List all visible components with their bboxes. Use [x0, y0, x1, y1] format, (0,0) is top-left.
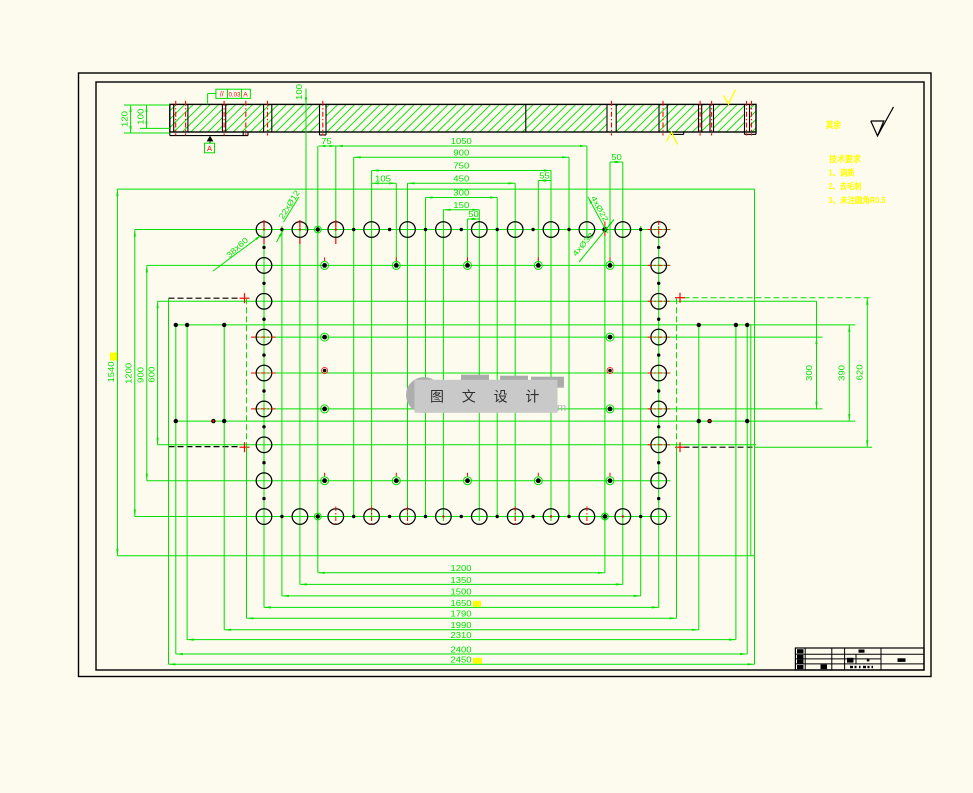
left pocket corner dots: [174, 323, 227, 424]
title block: [795, 648, 924, 670]
svg-text:1200: 1200: [125, 362, 134, 384]
section bar bottom tab middle: [671, 132, 684, 134]
top dimension extension lines: [396, 162, 610, 267]
watermark background glyphs: [461, 375, 566, 414]
svg-text://: //: [220, 92, 224, 99]
svg-text:1500: 1500: [451, 587, 473, 596]
leader 4x32 holes: [571, 220, 614, 263]
svg-text:计: 计: [525, 389, 539, 405]
svg-text:50: 50: [611, 153, 622, 162]
pocket row lines: [175, 325, 855, 421]
svg-text:技术要求: 技术要求: [829, 154, 861, 164]
svg-text:150: 150: [453, 201, 470, 210]
leader 22x12 holes: [277, 188, 303, 242]
dimension 600 left: [147, 301, 158, 445]
section bar bottom lip right: [745, 132, 757, 134]
svg-text:120: 120: [121, 110, 130, 127]
title block text blocks: [797, 649, 906, 669]
watermark text: [430, 389, 539, 405]
section bar bottom lip left: [170, 132, 248, 136]
svg-text:A: A: [243, 91, 248, 98]
svg-text:0.03: 0.03: [229, 91, 242, 98]
section bar red centerlines: [176, 101, 752, 136]
section view bar hatching: [140, 104, 780, 132]
bottom row holes: [256, 509, 666, 525]
technical requirements title: [829, 154, 861, 164]
hole column centre lines: [264, 146, 659, 607]
svg-text:390: 390: [838, 364, 847, 381]
svg-text:1050: 1050: [451, 137, 473, 146]
svg-text:图: 图: [430, 389, 444, 405]
midpoint column lines: [282, 146, 641, 596]
section bar outline: [170, 104, 756, 132]
red cross bottom right: [675, 442, 685, 452]
svg-text:2310: 2310: [451, 631, 473, 640]
svg-text:100: 100: [295, 83, 304, 100]
right column holes: [651, 246, 667, 501]
dimension 120 bar height: [121, 105, 170, 133]
dimension 900 left: [137, 265, 148, 480]
dashed vertical left: [246, 298, 248, 618]
svg-text:620: 620: [856, 364, 865, 381]
svg-text:文: 文: [462, 389, 476, 405]
svg-text:300: 300: [453, 189, 470, 198]
svg-text:900: 900: [453, 149, 470, 158]
dashed line top right: [684, 297, 873, 299]
dimension 100 top vertical: [295, 83, 307, 231]
parallelism tolerance frame 0.03 A: [208, 89, 251, 104]
surface finish symbol large: [871, 107, 894, 136]
red centre marks right column: [648, 221, 670, 445]
svg-text:1790: 1790: [451, 610, 473, 619]
inner bolt dots left column: [321, 333, 329, 413]
right pocket extension columns: [699, 189, 755, 664]
dimension 100 bar height: [137, 105, 170, 128]
svg-text:A: A: [207, 144, 212, 153]
svg-text:1350: 1350: [451, 576, 473, 585]
bottom dimension stack: [169, 564, 755, 665]
hole row centre lines: [135, 230, 823, 517]
red cross top right: [675, 293, 685, 303]
technical requirement 1: [829, 168, 855, 178]
svg-text:2、去毛刺: 2、去毛刺: [829, 181, 862, 191]
svg-text:55: 55: [539, 172, 550, 181]
yellow highlight 2450: [473, 658, 482, 664]
hidden dashed line bottom left: [169, 446, 241, 448]
inner bolt dots row2: [321, 257, 614, 269]
svg-text:105: 105: [375, 175, 392, 184]
leader 38x60: [213, 235, 262, 271]
leader 4x22 holes: [588, 194, 610, 233]
top row holes: [256, 222, 666, 238]
top dimension ladder: [319, 137, 623, 220]
dashed vertical right: [676, 298, 678, 618]
inner bolt dots right column: [606, 333, 614, 413]
svg-text:设: 设: [494, 389, 508, 405]
svg-text:75: 75: [321, 137, 332, 146]
svg-text:1540: 1540: [107, 361, 116, 383]
red cross top left: [240, 293, 250, 303]
svg-text:1、调质: 1、调质: [829, 168, 855, 178]
section bar small step: [320, 132, 327, 135]
svg-text:750: 750: [453, 162, 470, 171]
hidden dashed line top left: [169, 297, 241, 299]
svg-text:450: 450: [453, 175, 470, 184]
watermark logo blob: [406, 377, 442, 413]
dimension 300 right: [805, 301, 818, 409]
technical requirement 2: [829, 181, 862, 191]
dimension 1200 left: [125, 230, 136, 517]
surface finish symbol on bar top: [724, 90, 736, 105]
svg-text:m: m: [557, 402, 566, 414]
svg-text:2450: 2450: [451, 656, 473, 665]
surface finish symbol below bar: [667, 132, 678, 144]
dimension 1540 left: [107, 189, 119, 556]
svg-text:1200: 1200: [451, 564, 473, 573]
hidden dashed line bottom right: [684, 446, 873, 448]
inner bolt dots row8: [321, 473, 614, 485]
svg-text:100: 100: [137, 108, 146, 125]
svg-text:50: 50: [468, 210, 479, 219]
svg-text:其余: 其余: [826, 119, 842, 130]
svg-text:2400: 2400: [451, 645, 473, 654]
svg-text:1650: 1650: [451, 599, 473, 608]
svg-text:900: 900: [137, 366, 146, 383]
watermark plate: [415, 380, 558, 413]
datum A flag: [205, 136, 215, 153]
red centre marks bottom row: [336, 507, 624, 527]
leader target dot top: [602, 227, 607, 232]
drawing sheet inner border: [96, 82, 924, 670]
svg-text:600: 600: [147, 366, 156, 383]
technical requirement 3: [829, 195, 887, 205]
outer construction rectangle: [117, 189, 754, 556]
section bar slot gaps: [222, 105, 749, 131]
dimension 390 right: [838, 325, 851, 421]
dimension 620 right: [856, 298, 869, 448]
left pocket extension columns: [169, 298, 225, 664]
svg-text:1990: 1990: [451, 621, 473, 630]
drawing sheet outer border: [79, 73, 932, 677]
red centre marks top row: [263, 220, 605, 244]
left column holes: [256, 246, 272, 501]
svg-text:3、未注圆角R0.5: 3、未注圆角R0.5: [829, 195, 887, 205]
right pocket corner dots: [697, 323, 750, 424]
svg-text:300: 300: [805, 364, 814, 381]
yellow highlight 1650: [473, 601, 481, 607]
red cross bottom left: [240, 442, 250, 452]
red centre marks left column: [251, 337, 277, 409]
other roughness note: [826, 119, 842, 130]
